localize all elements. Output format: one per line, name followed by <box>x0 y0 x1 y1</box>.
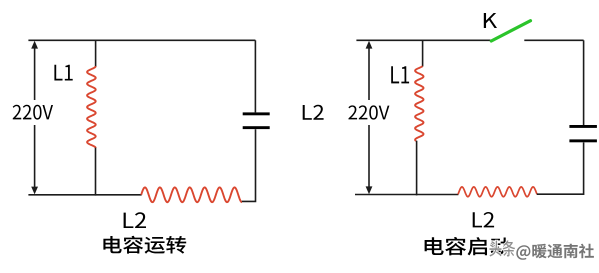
watermark 头条 <box>489 240 515 256</box>
voltage arrow 220V (left): double-headed vertical arrow <box>31 41 38 195</box>
inductor L2 (right, horizontal red coil) <box>458 187 537 197</box>
label L1 (left) <box>54 65 72 81</box>
wire: right L1 branch top stub <box>422 40 424 66</box>
wire: right circuit bottom horizontal <box>355 194 458 196</box>
wire: right circuit top-right horizontal <box>524 39 583 41</box>
caption 电容运转 <box>103 236 186 254</box>
capacitor C (right): two plates <box>569 125 597 142</box>
inductor L1 (right, vertical red coil) <box>415 66 423 141</box>
wire: left bottom-right segment <box>242 129 256 201</box>
label L2 (right bottom) <box>473 212 494 227</box>
inductor L2 (left, horizontal red coil) <box>141 187 242 202</box>
capacitor C (left): two plates <box>243 112 270 129</box>
wire: left right-side vertical above capacitor <box>254 40 256 112</box>
label L2 (left bottom) <box>124 212 146 228</box>
watermark @暖通南社 <box>516 244 594 260</box>
inductor L1 (left, vertical red coil) <box>87 66 96 148</box>
label K <box>484 13 497 28</box>
wire: right circuit top-left horizontal <box>356 39 490 41</box>
voltage arrow 220V (right): double-headed vertical arrow <box>366 41 373 194</box>
wire: right right-side vertical above capacitor <box>583 40 585 125</box>
wire: left circuit top horizontal <box>28 39 255 41</box>
label L2 (middle, between circuits) <box>303 105 324 120</box>
switch K (green blade, open) <box>491 21 530 41</box>
label 220V (left) <box>13 105 53 120</box>
wire: left L1 branch top stub <box>95 40 97 66</box>
caption 电容启动 <box>425 237 511 255</box>
wire: left L1 branch bottom stub <box>95 148 97 196</box>
label L1 (right) <box>391 66 409 83</box>
wire: right L1 branch bottom stub <box>416 141 418 196</box>
label 220V (right) <box>348 105 389 119</box>
wire: right bottom-right segment <box>537 143 584 195</box>
wire: left circuit bottom horizontal <box>28 194 141 196</box>
